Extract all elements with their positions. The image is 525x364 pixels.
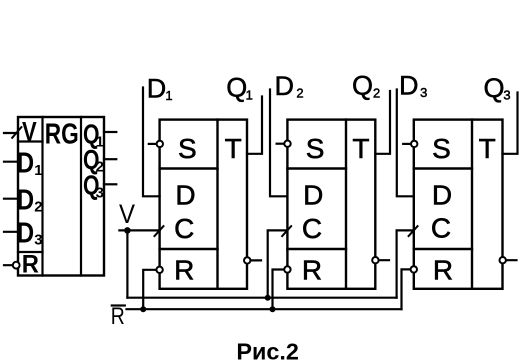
wire C2 tap bbox=[268, 230, 288, 297]
svg-text:S: S bbox=[432, 133, 451, 164]
wire D1 riser bbox=[143, 88, 160, 197]
Q3-bar output bubble bbox=[500, 257, 506, 263]
svg-text:R: R bbox=[22, 250, 39, 278]
S3 input bubble bbox=[411, 141, 417, 147]
wire D3 riser bbox=[397, 90, 414, 197]
C1 dynamic slash bbox=[154, 225, 164, 236]
svg-text:2: 2 bbox=[296, 86, 303, 101]
svg-text:3: 3 bbox=[96, 184, 104, 201]
register RG row divider under V bbox=[18, 140, 43, 142]
wire V to C1 input bbox=[119, 229, 159, 231]
wire R-bar bus bbox=[127, 308, 402, 310]
svg-text:3: 3 bbox=[420, 85, 427, 100]
svg-text:R: R bbox=[111, 303, 125, 330]
svg-text:1: 1 bbox=[246, 88, 253, 103]
wire Q1-bar stub bbox=[247, 259, 261, 261]
wire C3 tap bbox=[397, 230, 414, 297]
node V junction dot bbox=[124, 227, 131, 234]
svg-text:2: 2 bbox=[34, 198, 42, 215]
register V input dynamic slash bbox=[12, 127, 21, 138]
register RG row divider above R bbox=[18, 251, 43, 253]
wire register Q1 output stub bbox=[104, 131, 116, 133]
svg-text:1: 1 bbox=[165, 88, 172, 103]
svg-text:S: S bbox=[178, 133, 197, 164]
svg-text:D: D bbox=[147, 74, 167, 104]
wire S3 stub bbox=[403, 143, 411, 145]
wire register D3 input stub bbox=[4, 231, 18, 233]
svg-text:V: V bbox=[22, 116, 37, 146]
register R input inversion bubble bbox=[13, 262, 20, 269]
wire register D2 input stub bbox=[4, 198, 18, 200]
svg-text:D: D bbox=[175, 180, 195, 211]
svg-text:D: D bbox=[17, 184, 35, 216]
flip-flop U2 letters bbox=[302, 133, 370, 285]
R-bar overline bbox=[111, 304, 126, 306]
node V bus / C2 junction dot bbox=[265, 295, 271, 301]
flip-flop U3 (T) body bbox=[414, 120, 503, 289]
R2 input bubble bbox=[284, 266, 290, 272]
flip-flop U1 letters bbox=[174, 133, 242, 285]
svg-text:D: D bbox=[399, 71, 419, 101]
wire S2 stub bbox=[277, 143, 285, 145]
svg-text:C: C bbox=[174, 213, 194, 244]
svg-text:T: T bbox=[225, 133, 242, 164]
svg-text:R: R bbox=[174, 255, 194, 286]
svg-text:C: C bbox=[302, 213, 322, 244]
C3 dynamic slash bbox=[408, 225, 418, 236]
svg-text:Рис.2: Рис.2 bbox=[236, 339, 299, 364]
svg-text:C: C bbox=[431, 213, 451, 244]
svg-text:D: D bbox=[432, 180, 452, 211]
wire Q2 riser bbox=[375, 91, 390, 154]
flip-flop U2 (T) body bbox=[287, 120, 375, 289]
wire register D1 input stub bbox=[4, 161, 18, 163]
register RG column divider right bbox=[80, 117, 82, 276]
svg-text:RG: RG bbox=[45, 119, 79, 151]
wire V bus bbox=[127, 297, 396, 299]
svg-text:D: D bbox=[17, 148, 35, 180]
svg-text:V: V bbox=[119, 199, 135, 229]
wire register R input stub bbox=[4, 264, 18, 266]
svg-text:3: 3 bbox=[34, 232, 42, 249]
wire register Q3 output stub bbox=[104, 183, 116, 185]
wire R3 tap bbox=[402, 269, 414, 309]
svg-text:Q: Q bbox=[484, 73, 505, 103]
wire Q1 riser bbox=[247, 97, 262, 154]
svg-text:S: S bbox=[306, 133, 325, 164]
svg-text:Q: Q bbox=[352, 71, 373, 101]
wire S1 stub bbox=[149, 143, 157, 145]
register RG column divider left bbox=[41, 117, 43, 276]
R1 input bubble bbox=[156, 267, 162, 273]
svg-text:D: D bbox=[303, 180, 323, 211]
flip-flop U1 (T) body bbox=[160, 120, 247, 289]
S2 input bubble bbox=[284, 141, 290, 147]
svg-text:R: R bbox=[433, 254, 453, 285]
C2 dynamic slash bbox=[282, 225, 292, 236]
wire register Q2 output stub bbox=[104, 158, 116, 160]
wire R2 tap bbox=[273, 270, 288, 310]
wire Q3-bar stub bbox=[503, 259, 517, 261]
R3 input bubble bbox=[411, 266, 417, 272]
wire register V input stub bbox=[4, 132, 18, 134]
svg-text:D: D bbox=[17, 217, 35, 249]
S1 input bubble bbox=[157, 141, 163, 147]
flip-flop U3 letters bbox=[431, 133, 496, 285]
svg-text:3: 3 bbox=[503, 88, 510, 103]
svg-text:T: T bbox=[479, 133, 496, 164]
svg-text:Q: Q bbox=[226, 73, 247, 103]
svg-text:R: R bbox=[302, 255, 322, 286]
svg-text:T: T bbox=[352, 133, 369, 164]
svg-text:2: 2 bbox=[373, 86, 380, 101]
node R bus / R2 junction dot bbox=[270, 306, 276, 312]
Q1-bar output bubble bbox=[244, 257, 250, 263]
svg-text:D: D bbox=[275, 71, 295, 101]
Q2-bar output bubble bbox=[372, 257, 378, 263]
wire D2 riser bbox=[270, 90, 287, 197]
wire Q2-bar stub bbox=[375, 259, 389, 261]
wire R1 tap bbox=[143, 270, 159, 309]
wire Q3 riser bbox=[503, 93, 518, 154]
node R bus / R1 junction dot bbox=[140, 306, 146, 312]
wire V drop to bus bbox=[126, 230, 128, 297]
register RG symbol outline bbox=[18, 117, 104, 276]
svg-text:1: 1 bbox=[34, 162, 42, 179]
